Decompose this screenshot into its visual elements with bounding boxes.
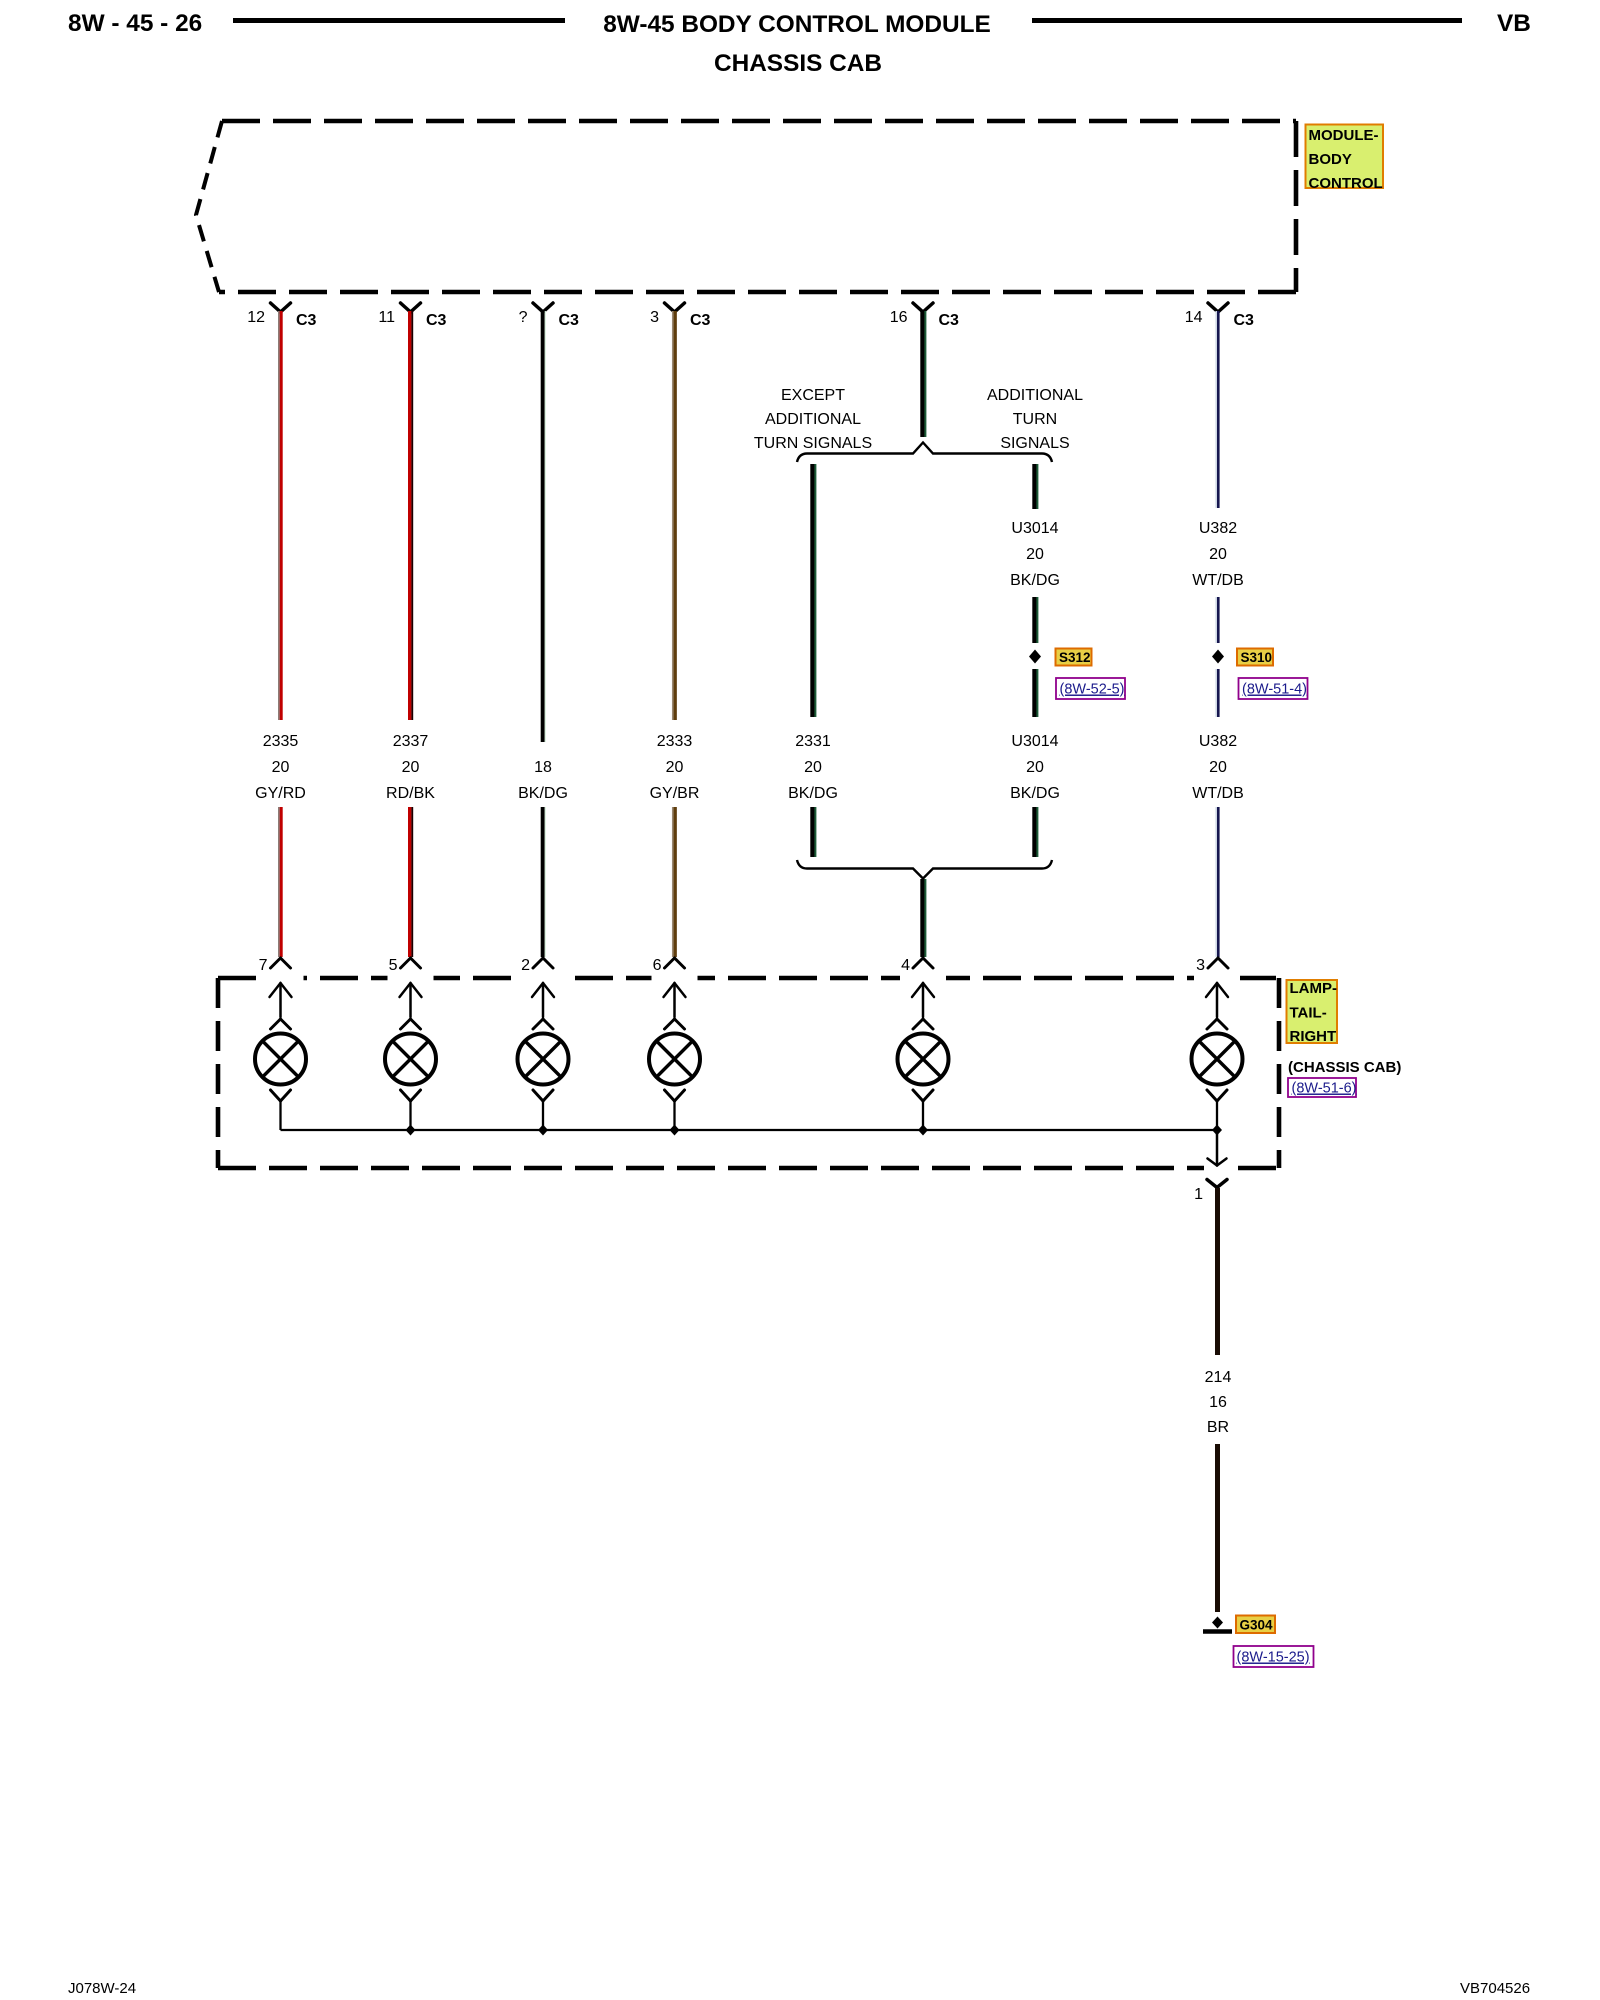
brace merge lower (797, 860, 1052, 879)
svg-text:20: 20 (1209, 546, 1227, 563)
splice S312 diamond (1029, 650, 1041, 664)
svg-text:C3: C3 (426, 312, 447, 329)
lamp terminal chevron 3 (1207, 1019, 1227, 1029)
wire 2335 GY/RD lower segment (279, 807, 281, 957)
svg-text:WT/DB: WT/DB (1192, 572, 1244, 589)
lamp 2 lower fork (533, 1090, 553, 1101)
wire U382 WT/DB lower segment (1216, 807, 1218, 957)
link 8W-51-4 (1239, 678, 1308, 699)
svg-text:BK/DG: BK/DG (518, 785, 568, 802)
svg-text:BODY: BODY (1309, 151, 1352, 168)
svg-text:2: 2 (521, 957, 530, 974)
lamp 5 lower fork (401, 1090, 421, 1101)
label box LAMP-TAIL-RIGHT (1287, 980, 1338, 1045)
brace split upper (797, 443, 1052, 463)
svg-text:G304: G304 (1240, 1618, 1274, 1633)
wire from pin 16 BK/DG stub (922, 311, 925, 437)
wire 2331 BK/DG branch lower segment (812, 807, 815, 857)
svg-text:2333: 2333 (657, 733, 693, 750)
splice S310 diamond (1212, 650, 1224, 664)
link 8W-52-5 (1056, 678, 1125, 699)
svg-text:12: 12 (247, 309, 265, 326)
tail lamp 1 (pin 7) (255, 1034, 306, 1085)
svg-text:20: 20 (1026, 759, 1044, 776)
module BODY CONTROL MODULE dashed outline C3 (196, 121, 1296, 292)
connector fork into lamp pin 7 (271, 958, 291, 968)
svg-text:16: 16 (1209, 1394, 1227, 1411)
lamp terminal chevron 6 (665, 1019, 685, 1029)
wire U3014 BK/DG above splice (1034, 597, 1037, 643)
wire label 214 16 BR (1205, 1369, 1232, 1436)
lamp terminal chevron 2 (533, 1019, 553, 1029)
svg-text:SIGNALS: SIGNALS (1000, 435, 1069, 452)
svg-text:18: 18 (534, 759, 552, 776)
connector C3 pin 16 fork (913, 303, 933, 312)
lamp 4 lower fork (913, 1090, 933, 1101)
header rule left (233, 18, 565, 23)
link 8W-51-6 (1288, 1078, 1357, 1097)
svg-text:BK/DG: BK/DG (1010, 572, 1060, 589)
svg-text:LAMP-: LAMP- (1290, 980, 1338, 997)
svg-text:4: 4 (901, 957, 910, 974)
wire label 18 BK/DG (518, 759, 568, 802)
svg-text:VB704526: VB704526 (1460, 1980, 1530, 1997)
svg-text:S312: S312 (1059, 650, 1091, 665)
note ADDITIONAL TURN SIGNALS (987, 387, 1083, 452)
svg-text:20: 20 (666, 759, 684, 776)
svg-text:?: ? (519, 309, 528, 326)
svg-text:C3: C3 (559, 312, 580, 329)
wire 18 BK/DG upper segment (543, 311, 546, 742)
svg-text:BK/DG: BK/DG (788, 785, 838, 802)
label box S310 (1237, 649, 1273, 666)
svg-text:U3014: U3014 (1011, 520, 1058, 537)
svg-text:214: 214 (1205, 1369, 1232, 1386)
wire U382 WT/DB above splice (1216, 597, 1218, 643)
wire U382 WT/DB below splice (1216, 669, 1218, 717)
wire 214 BR upper segment (1215, 1188, 1220, 1355)
svg-text:RIGHT: RIGHT (1290, 1028, 1337, 1045)
bus junction (406, 1125, 416, 1136)
svg-text:20: 20 (1026, 546, 1044, 563)
svg-text:20: 20 (272, 759, 290, 776)
lamp TAIL-RIGHT dashed outline (218, 978, 1279, 1168)
wire 2335 GY/RD upper segment (279, 311, 281, 720)
wire lamp 2 to bus (542, 1100, 544, 1130)
arrow to pin 3 (1206, 983, 1228, 1017)
arrow to pin 2 (532, 983, 554, 1017)
svg-text:1: 1 (1194, 1186, 1203, 1203)
svg-text:U3014: U3014 (1011, 733, 1058, 750)
link 8W-15-25 (1234, 1646, 1314, 1667)
wire U3014 BK/DG below splice (1034, 669, 1037, 717)
svg-text:11: 11 (378, 309, 395, 326)
wire label 2335 20 GY/RD (255, 733, 306, 802)
connector fork into lamp pin 4 (913, 958, 933, 968)
wire 214 BR lower segment (1215, 1444, 1220, 1612)
svg-text:7: 7 (259, 957, 268, 974)
svg-text:S310: S310 (1241, 650, 1273, 665)
header rule right (1032, 18, 1462, 23)
svg-text:C3: C3 (1234, 312, 1255, 329)
svg-text:MODULE-: MODULE- (1309, 127, 1379, 144)
svg-text:TURN SIGNALS: TURN SIGNALS (754, 435, 872, 452)
connector fork pin 1 (1207, 1180, 1227, 1188)
label box MODULE-BODY CONTROL (1306, 125, 1384, 193)
tail lamp 3 (pin 2) (518, 1034, 569, 1085)
svg-text:ADDITIONAL: ADDITIONAL (765, 411, 861, 428)
arrow to pin 5 (400, 983, 422, 1017)
svg-text:GY/RD: GY/RD (255, 785, 306, 802)
wire 2331 BK/DG merged segment to pin 4 (922, 879, 925, 957)
svg-text:WT/DB: WT/DB (1192, 785, 1244, 802)
svg-text:TAIL-: TAIL- (1290, 1005, 1327, 1022)
wire label 2331 20 BK/DG (788, 733, 838, 802)
wire U3014 BK/DG branch lower segment (1034, 807, 1037, 857)
wire lamp 5 to bus (409, 1100, 411, 1130)
tail lamp 5 (pin 4) (898, 1034, 949, 1085)
tail lamp 2 (pin 5) (385, 1034, 436, 1085)
svg-text:C3: C3 (690, 312, 711, 329)
wire label U3014 20 BK/DG upper (1010, 520, 1060, 589)
wire lamp 4 to bus (922, 1100, 924, 1130)
arrow to pin 4 (912, 983, 934, 1017)
connector C3 pin 11 fork (401, 303, 421, 312)
svg-text:VB: VB (1497, 10, 1531, 37)
svg-text:20: 20 (1209, 759, 1227, 776)
svg-text:(8W-52-5): (8W-52-5) (1060, 682, 1125, 698)
wire label U382 20 WT/DB lower (1192, 733, 1244, 802)
note EXCEPT ADDITIONAL TURN SIGNALS (754, 387, 872, 452)
lamp terminal chevron 7 (271, 1019, 291, 1029)
connector C3 pin ? fork (533, 303, 553, 312)
svg-text:6: 6 (653, 957, 662, 974)
wire 2337 RD/BK upper segment (410, 311, 413, 720)
tail lamp 4 (pin 6) (649, 1034, 700, 1085)
connector fork into lamp pin 3 (1208, 958, 1228, 968)
wire ground bus inside lamp (281, 1129, 1218, 1131)
svg-text:2337: 2337 (393, 733, 429, 750)
arrow to pin 7 (270, 983, 292, 1017)
svg-text:C3: C3 (939, 312, 960, 329)
wire lamp 7 to bus (279, 1100, 281, 1130)
tail lamp 6 (pin 3) (1192, 1034, 1243, 1085)
wire label 2333 20 GY/BR (650, 733, 700, 802)
connector C3 pin 14 fork (1208, 303, 1228, 312)
svg-text:16: 16 (890, 309, 908, 326)
wire 2337 RD/BK lower segment (410, 807, 413, 957)
lamp terminal chevron 4 (913, 1019, 933, 1029)
svg-text:RD/BK: RD/BK (386, 785, 435, 802)
wire label U3014 20 BK/DG lower (1010, 733, 1060, 802)
svg-text:20: 20 (804, 759, 822, 776)
svg-text:J078W-24: J078W-24 (68, 1980, 136, 1997)
wire lamp 6 to bus (673, 1100, 675, 1130)
wire label 2337 20 RD/BK (386, 733, 435, 802)
svg-text:BK/DG: BK/DG (1010, 785, 1060, 802)
svg-text:(8W-51-6): (8W-51-6) (1292, 1081, 1357, 1097)
svg-text:ADDITIONAL: ADDITIONAL (987, 387, 1083, 404)
svg-text:U382: U382 (1199, 733, 1237, 750)
lamp 7 lower fork (271, 1090, 291, 1101)
svg-text:(8W-51-4): (8W-51-4) (1242, 682, 1307, 698)
connector C3 pin 12 fork (271, 303, 291, 312)
svg-text:8W-45 BODY CONTROL MODULE: 8W-45 BODY CONTROL MODULE (603, 11, 991, 38)
svg-text:(CHASSIS CAB): (CHASSIS CAB) (1288, 1059, 1401, 1076)
connector fork into lamp pin 5 (401, 958, 421, 968)
svg-text:2335: 2335 (263, 733, 299, 750)
svg-text:EXCEPT: EXCEPT (781, 387, 845, 404)
svg-text:CHASSIS CAB: CHASSIS CAB (714, 50, 882, 77)
svg-text:8W - 45 - 26: 8W - 45 - 26 (68, 10, 202, 37)
svg-text:GY/BR: GY/BR (650, 785, 700, 802)
bus junction (1212, 1125, 1222, 1136)
svg-text:3: 3 (650, 309, 659, 326)
bus junction (918, 1125, 928, 1136)
svg-text:2331: 2331 (795, 733, 831, 750)
svg-text:20: 20 (402, 759, 420, 776)
arrow to pin 6 (664, 983, 686, 1017)
svg-text:BR: BR (1207, 1419, 1229, 1436)
wire bus exit drop (1208, 1130, 1227, 1166)
connector fork into lamp pin 2 (533, 958, 553, 968)
wire 2333 GY/BR upper segment (673, 311, 675, 720)
wire U382 WT/DB upper segment (1216, 311, 1218, 508)
wire U3014 BK/DG branch upper segment (1034, 464, 1037, 509)
wire label U382 20 WT/DB upper (1192, 520, 1244, 589)
lamp 3 lower fork (1207, 1090, 1227, 1101)
wire 18 BK/DG lower segment (543, 807, 546, 957)
svg-text:U382: U382 (1199, 520, 1237, 537)
lamp terminal chevron 5 (401, 1019, 421, 1029)
bus junction (670, 1125, 680, 1136)
wire 2333 GY/BR lower segment (673, 807, 675, 957)
svg-text:C3: C3 (296, 312, 317, 329)
wire lamp 3 to bus (1216, 1100, 1218, 1130)
svg-text:5: 5 (389, 957, 398, 974)
label box S312 (1056, 649, 1092, 666)
wire 2331 BK/DG branch upper segment (812, 464, 815, 717)
connector C3 pin 3 fork (665, 303, 685, 312)
connector fork into lamp pin 6 (665, 958, 685, 968)
ground G304 symbol (1203, 1617, 1232, 1632)
svg-text:(8W-15-25): (8W-15-25) (1237, 1650, 1310, 1666)
label box G304 (1236, 1616, 1275, 1634)
bus junction (538, 1125, 548, 1136)
svg-text:TURN: TURN (1013, 411, 1057, 428)
svg-text:3: 3 (1196, 957, 1205, 974)
lamp 6 lower fork (665, 1090, 685, 1101)
svg-text:CONTROL: CONTROL (1309, 175, 1383, 192)
svg-text:14: 14 (1185, 309, 1203, 326)
